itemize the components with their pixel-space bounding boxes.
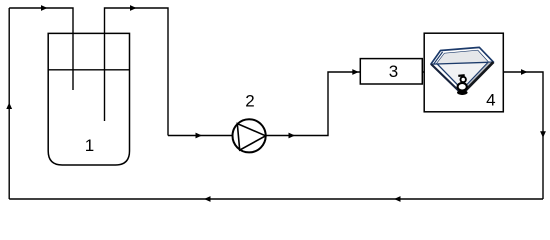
detector figure: head circle [461, 77, 466, 82]
flow arrow right into box 3 [352, 69, 359, 75]
box 3 (flow cell) [360, 59, 422, 84]
pump 2 triangle [237, 124, 265, 151]
gem pavilion left edge [431, 64, 462, 94]
flow arrow left on bottom run (right) [394, 196, 401, 202]
wire pump inlet [168, 135, 233, 137]
vessel 1 liquid level line [48, 69, 129, 71]
vessel 1 (reservoir with round bottom) [48, 33, 129, 165]
svg-text:1: 1 [85, 136, 94, 155]
detector gem icon: outer silhouette [431, 47, 493, 94]
wire box 4 outlet to right downcomer [503, 72, 543, 199]
svg-text:3: 3 [389, 62, 398, 81]
wire box 3 to box 4 [422, 71, 425, 73]
flow arrow down on right downcomer [540, 131, 546, 138]
wire top run into vessel tube A [9, 8, 73, 90]
wire pump outlet riser to box 3 [265, 72, 360, 136]
flow arrow right on pump outlet [289, 133, 296, 139]
flow arrow right on top run A [41, 5, 48, 11]
flow arrow right out of box 4 [521, 69, 528, 75]
detector figure: body ellipse [458, 83, 467, 91]
pump 2 circle [233, 119, 266, 152]
flow arrow left on bottom run (left) [204, 196, 211, 202]
wire left vertical (return riser) [8, 8, 10, 199]
detector figure: cap [458, 74, 464, 77]
gem inner face (table + pavilion) [437, 51, 489, 90]
svg-text:2: 2 [245, 92, 254, 111]
box 4 (detector unit) [424, 33, 503, 112]
wire bottom return run [9, 198, 543, 200]
flow arrow right on top run B [130, 5, 137, 11]
svg-text:4: 4 [486, 90, 495, 109]
flow arrow right on pump inlet [196, 133, 203, 139]
wire vessel outlet tube B to downcomer [105, 8, 169, 136]
gem right pavilion shadow strip [462, 62, 493, 94]
gem pavilion right edge (black shadow) [462, 62, 493, 94]
detector figure: black base [457, 90, 468, 95]
flow arrow up on left vertical [6, 103, 12, 110]
gem table facet [437, 51, 489, 64]
gem girdle line [433, 62, 492, 64]
gem left bevel inner line [434, 52, 443, 64]
